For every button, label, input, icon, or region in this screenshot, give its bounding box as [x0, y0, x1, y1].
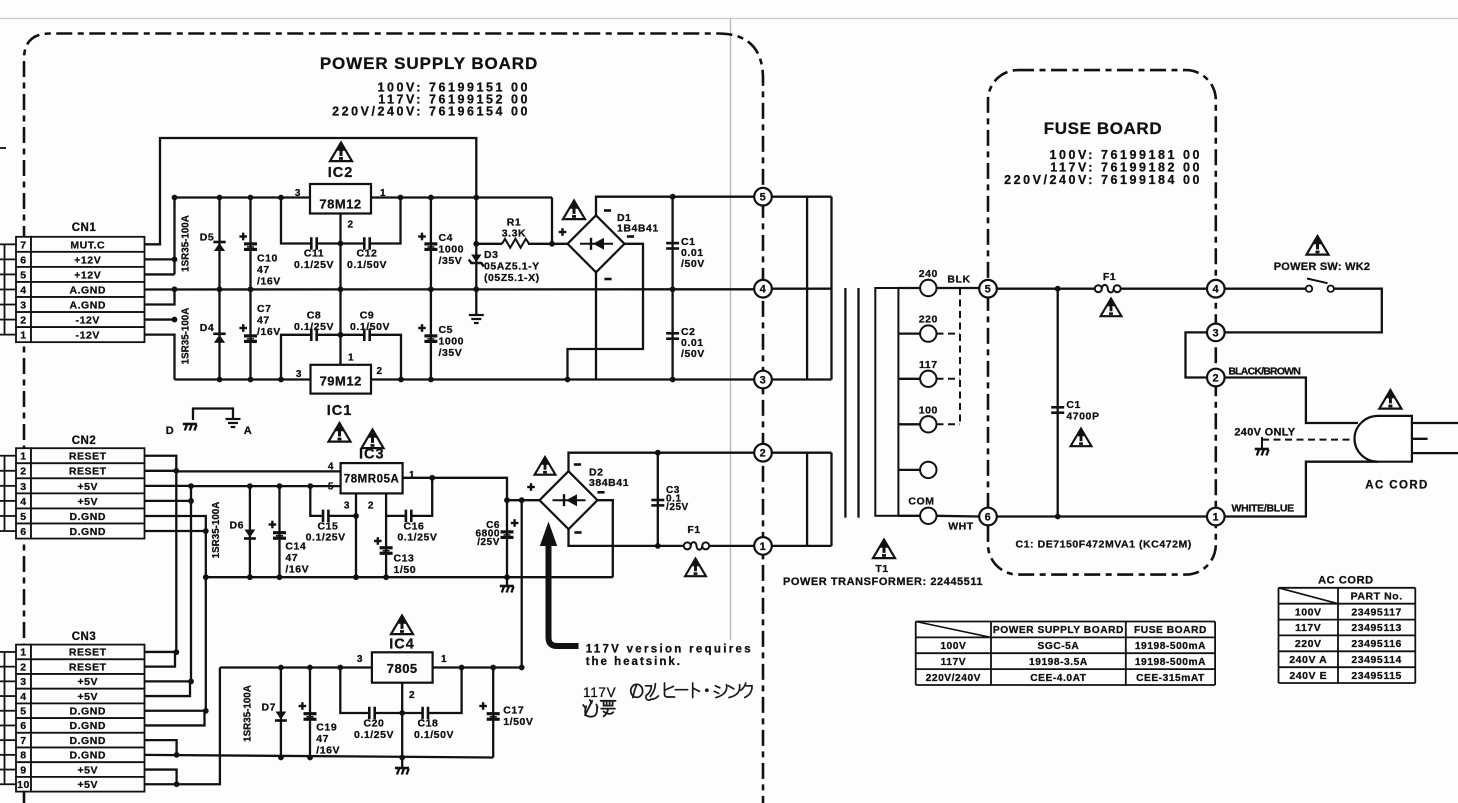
svg-text:D.GND: D.GND	[69, 706, 106, 718]
svg-text:/16V: /16V	[285, 564, 309, 576]
svg-text:D.GND: D.GND	[69, 526, 106, 538]
svg-text:1: 1	[20, 451, 26, 463]
svg-text:78M12: 78M12	[319, 197, 361, 212]
svg-text:8: 8	[20, 750, 26, 762]
svg-text:100V: 100V	[940, 641, 966, 652]
svg-text:240: 240	[919, 268, 938, 280]
svg-text:1: 1	[20, 647, 26, 659]
svg-text:/35V: /35V	[439, 347, 463, 359]
svg-text:6: 6	[20, 720, 26, 732]
svg-text:/16V: /16V	[316, 745, 340, 757]
svg-text:240V A: 240V A	[1289, 654, 1327, 666]
svg-text:2: 2	[20, 466, 26, 478]
svg-text:CEE-315mAT: CEE-315mAT	[1136, 673, 1205, 684]
svg-text:D.GND: D.GND	[69, 735, 106, 747]
svg-text:47: 47	[285, 552, 298, 564]
svg-text:CN1: CN1	[72, 222, 97, 234]
svg-text:CN2: CN2	[72, 435, 97, 447]
svg-text:2: 2	[20, 661, 26, 673]
svg-text:5: 5	[985, 284, 992, 296]
svg-text:117V: 117V	[583, 685, 616, 700]
svg-text:4: 4	[20, 691, 26, 703]
svg-text:IC4: IC4	[389, 637, 415, 653]
svg-text:BLK: BLK	[947, 274, 970, 286]
svg-text:3: 3	[760, 374, 767, 386]
svg-text:1000: 1000	[439, 336, 465, 348]
svg-text:4: 4	[1212, 284, 1219, 296]
svg-text:1SR35-100A: 1SR35-100A	[243, 685, 254, 742]
svg-text:05AZ5.1-Y: 05AZ5.1-Y	[484, 261, 540, 273]
svg-text:384B41: 384B41	[589, 477, 629, 489]
svg-text:RESET: RESET	[69, 451, 107, 463]
svg-text:3: 3	[20, 676, 26, 688]
svg-text:1: 1	[760, 541, 767, 553]
svg-text:+5V: +5V	[77, 481, 98, 493]
svg-text:117V version requires: 117V version requires	[586, 644, 753, 656]
svg-text:C10: C10	[257, 253, 278, 265]
svg-text:C19: C19	[316, 722, 337, 734]
svg-text:1: 1	[409, 470, 415, 481]
svg-text:2: 2	[760, 448, 767, 460]
svg-text:+12V: +12V	[74, 254, 101, 266]
svg-text:/16V: /16V	[257, 326, 281, 338]
svg-text:D7: D7	[261, 702, 276, 714]
svg-text:1B4B41: 1B4B41	[617, 223, 659, 235]
svg-text:5: 5	[760, 192, 767, 204]
svg-text:117: 117	[919, 359, 938, 371]
svg-text:1/50V: 1/50V	[503, 716, 533, 728]
svg-text:C14: C14	[285, 541, 306, 553]
svg-text:the heatsink.: the heatsink.	[586, 656, 682, 668]
svg-text:+5V: +5V	[77, 676, 98, 688]
svg-text:FUSE BOARD: FUSE BOARD	[1134, 625, 1207, 636]
svg-text:2: 2	[348, 220, 354, 231]
svg-text:CN3: CN3	[72, 631, 97, 643]
svg-text:0.1/50V: 0.1/50V	[350, 321, 390, 333]
svg-text:2: 2	[368, 501, 374, 512]
svg-text:3: 3	[357, 654, 363, 665]
svg-text:IC1: IC1	[327, 403, 353, 419]
svg-text:MUT.C: MUT.C	[70, 239, 105, 251]
svg-text:78MR05A: 78MR05A	[344, 474, 400, 486]
svg-text:2: 2	[377, 366, 383, 377]
svg-text:RESET: RESET	[69, 661, 107, 673]
svg-text:47: 47	[316, 733, 329, 745]
svg-text:F1: F1	[1103, 271, 1116, 283]
svg-text:6: 6	[985, 511, 992, 523]
svg-text:D: D	[166, 425, 175, 437]
svg-text:SGC-5A: SGC-5A	[1038, 641, 1080, 652]
svg-text:0.1/25V: 0.1/25V	[397, 532, 437, 544]
svg-text:+5V: +5V	[77, 691, 98, 703]
svg-text:0.1/25V: 0.1/25V	[294, 321, 334, 333]
svg-text:240V E: 240V E	[1289, 670, 1327, 682]
svg-text:4700P: 4700P	[1066, 411, 1099, 423]
svg-text:(05Z5.1-X): (05Z5.1-X)	[484, 272, 540, 284]
svg-text:9: 9	[20, 764, 26, 776]
svg-text:19198-3.5A: 19198-3.5A	[1029, 657, 1088, 668]
svg-text:220: 220	[919, 314, 938, 326]
svg-text:IC3: IC3	[359, 447, 385, 463]
svg-text:-12V: -12V	[76, 330, 100, 342]
svg-text:+5V: +5V	[77, 779, 98, 791]
svg-text:0.1/50V: 0.1/50V	[347, 259, 387, 271]
svg-text:23495114: 23495114	[1351, 654, 1402, 666]
svg-text:240V ONLY: 240V ONLY	[1234, 427, 1295, 439]
svg-text:100: 100	[919, 404, 938, 416]
svg-text:D4: D4	[200, 322, 215, 334]
svg-text:3: 3	[1212, 327, 1219, 339]
svg-text:FUSE BOARD: FUSE BOARD	[1044, 119, 1162, 138]
svg-text:AC CORD: AC CORD	[1365, 480, 1428, 492]
svg-text:6: 6	[20, 254, 26, 266]
svg-text:47: 47	[257, 315, 270, 327]
svg-text:0.1/25V: 0.1/25V	[354, 729, 394, 741]
svg-text:3: 3	[295, 188, 301, 199]
svg-text:IC2: IC2	[328, 165, 354, 181]
svg-text:1: 1	[348, 353, 354, 364]
svg-text:POWER SW: WK2: POWER SW: WK2	[1274, 261, 1371, 273]
svg-text:10: 10	[17, 779, 30, 791]
svg-text:0.1/25V: 0.1/25V	[306, 532, 346, 544]
svg-text:47: 47	[257, 264, 270, 276]
svg-text:WHITE/BLUE: WHITE/BLUE	[1232, 503, 1295, 515]
svg-text:7: 7	[20, 239, 26, 251]
svg-text:220V/240V: 76199184 00: 220V/240V: 76199184 00	[1004, 173, 1202, 187]
svg-text:1SR35-100A: 1SR35-100A	[211, 502, 222, 559]
svg-text:POWER SUPPLY BOARD: POWER SUPPLY BOARD	[320, 54, 538, 73]
svg-text:1: 1	[380, 188, 386, 199]
svg-text:/50V: /50V	[681, 348, 705, 360]
svg-text:A: A	[244, 425, 253, 437]
svg-text:0.1/25V: 0.1/25V	[294, 259, 334, 271]
svg-text:4: 4	[328, 462, 334, 473]
svg-text:3.3K: 3.3K	[502, 228, 526, 240]
svg-text:0.1/50V: 0.1/50V	[414, 729, 454, 741]
svg-text:5: 5	[20, 706, 26, 718]
svg-text:-12V: -12V	[76, 315, 100, 327]
svg-text:C1: DE7150F472MVA1 (KC472M): C1: DE7150F472MVA1 (KC472M)	[1016, 539, 1192, 551]
svg-text:C7: C7	[257, 303, 272, 315]
svg-text:F1: F1	[687, 524, 700, 536]
svg-text:+5V: +5V	[77, 496, 98, 508]
svg-text:/35V: /35V	[439, 255, 463, 267]
svg-text:/25V: /25V	[477, 537, 500, 548]
svg-text:C17: C17	[503, 705, 524, 717]
svg-text:C18: C18	[418, 718, 439, 730]
svg-text:C8: C8	[307, 310, 322, 322]
svg-text:1/50: 1/50	[394, 564, 417, 576]
svg-text:D5: D5	[200, 232, 215, 244]
svg-text:117V: 117V	[941, 657, 966, 668]
svg-text:D.GND: D.GND	[69, 750, 106, 762]
svg-text:23495113: 23495113	[1351, 622, 1402, 634]
svg-text:/16V: /16V	[257, 276, 281, 288]
svg-text:3: 3	[20, 481, 26, 493]
svg-text:6: 6	[20, 526, 26, 538]
svg-text:1: 1	[1212, 511, 1219, 523]
svg-text:C13: C13	[394, 553, 415, 565]
svg-text:D.GND: D.GND	[69, 720, 106, 732]
svg-text:23495117: 23495117	[1351, 606, 1402, 618]
svg-text:220V/240V: 76196154 00: 220V/240V: 76196154 00	[332, 105, 530, 119]
svg-text:220V: 220V	[1295, 638, 1322, 650]
svg-text:WHT: WHT	[948, 521, 974, 533]
svg-text:C20: C20	[364, 718, 385, 730]
svg-text:3: 3	[296, 369, 302, 380]
svg-text:19198-500mA: 19198-500mA	[1135, 657, 1206, 668]
svg-text:/25V: /25V	[666, 502, 689, 513]
svg-text:+12V: +12V	[74, 269, 101, 281]
svg-text:79M12: 79M12	[320, 374, 362, 389]
svg-text:CEE-4.0AT: CEE-4.0AT	[1030, 673, 1087, 684]
svg-text:C1: C1	[1066, 399, 1081, 411]
svg-text:POWER TRANSFORMER: 22445511: POWER TRANSFORMER: 22445511	[783, 576, 983, 588]
svg-text:3: 3	[344, 501, 350, 512]
svg-text:7: 7	[20, 735, 26, 747]
svg-text:PART No.: PART No.	[1351, 590, 1403, 602]
svg-text:C12: C12	[357, 248, 378, 260]
svg-text:COM: COM	[908, 496, 934, 508]
svg-text:3: 3	[20, 299, 26, 311]
svg-text:D3: D3	[484, 249, 499, 261]
svg-text:POWER SUPPLY BOARD: POWER SUPPLY BOARD	[993, 625, 1124, 636]
svg-text:2: 2	[20, 315, 26, 327]
svg-text:7805: 7805	[387, 661, 418, 676]
svg-text:4: 4	[20, 284, 26, 296]
svg-text:1: 1	[20, 330, 26, 342]
svg-text:AC CORD: AC CORD	[1318, 575, 1374, 587]
svg-text:D.GND: D.GND	[69, 511, 106, 523]
svg-text:4: 4	[20, 496, 26, 508]
svg-text:23495115: 23495115	[1351, 670, 1402, 682]
svg-text:A.GND: A.GND	[69, 299, 106, 311]
svg-text:C9: C9	[360, 310, 375, 322]
svg-text:23495116: 23495116	[1351, 638, 1402, 650]
svg-text:4: 4	[760, 284, 767, 296]
svg-text:5: 5	[20, 269, 26, 281]
svg-text:C11: C11	[304, 248, 324, 260]
svg-text:1SR35-100A: 1SR35-100A	[181, 215, 192, 272]
svg-text:1SR35-100A: 1SR35-100A	[181, 308, 192, 365]
svg-text:117V: 117V	[1295, 622, 1321, 634]
svg-text:C5: C5	[439, 324, 454, 336]
svg-text:1: 1	[441, 654, 447, 665]
svg-text:5: 5	[20, 511, 26, 523]
svg-text:RESET: RESET	[69, 647, 107, 659]
svg-text:A.GND: A.GND	[69, 284, 106, 296]
svg-text:220V/240V: 220V/240V	[926, 673, 981, 684]
svg-text:2: 2	[409, 690, 415, 701]
svg-text:1000: 1000	[439, 244, 465, 256]
svg-text:C4: C4	[439, 232, 454, 244]
svg-text:BLACK/BROWN: BLACK/BROWN	[1228, 366, 1300, 378]
svg-text:T1: T1	[875, 563, 888, 575]
svg-text:19198-500mA: 19198-500mA	[1135, 641, 1206, 652]
svg-text:5: 5	[328, 482, 334, 493]
svg-text:+5V: +5V	[77, 764, 98, 776]
svg-text:RESET: RESET	[69, 466, 107, 478]
svg-text:D6: D6	[229, 520, 244, 532]
svg-text:2: 2	[1212, 372, 1219, 384]
svg-text:100V: 100V	[1295, 606, 1322, 618]
svg-text:/50V: /50V	[681, 258, 705, 270]
